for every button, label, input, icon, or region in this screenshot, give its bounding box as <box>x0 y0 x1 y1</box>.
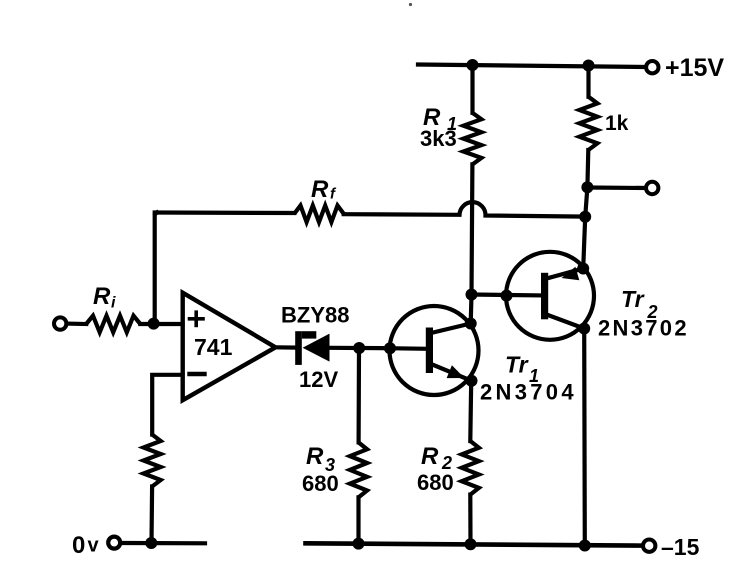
resistor R1 <box>463 113 481 165</box>
svg-text:f: f <box>330 186 337 203</box>
Tr2 base bar <box>541 273 548 320</box>
terminal 0V <box>108 537 120 549</box>
svg-text:R: R <box>93 283 111 310</box>
zener anode triangle <box>303 334 330 362</box>
node top rail R1 junction <box>467 59 479 71</box>
svg-text:12V: 12V <box>299 367 338 392</box>
node +15V rail <box>418 65 646 68</box>
svg-text:R: R <box>421 443 439 470</box>
svg-text:R: R <box>306 443 324 470</box>
wire feedback top left corner <box>155 213 157 325</box>
terminal -15 <box>643 540 655 552</box>
wire Rf left segment <box>155 210 295 215</box>
op-amp U1 741 triangle <box>183 293 276 401</box>
svg-text:–15: –15 <box>661 534 700 560</box>
Tr1 base wire <box>388 346 426 351</box>
node Tr2 collector junction <box>578 323 590 335</box>
wire 1k bottom to output junction <box>585 150 590 187</box>
terminal input <box>54 317 66 329</box>
node zener/R3 junction <box>353 342 365 354</box>
terminal output <box>646 182 658 194</box>
Tr1 base bar <box>426 328 433 374</box>
node Tr2 emitter junction <box>577 263 589 275</box>
node -15 rail <box>306 543 643 545</box>
resistor R2 <box>462 441 479 495</box>
svg-text:Tr: Tr <box>621 286 645 312</box>
wire Tr1 emitter down to R2 <box>468 381 473 441</box>
node top rail 1k junction <box>583 60 595 72</box>
wire junction down to R3 <box>357 348 362 442</box>
node output tap junction <box>581 181 593 193</box>
wire input to Ri <box>67 322 87 327</box>
node Tr2 collector rail junction <box>579 540 591 552</box>
wire Tr2 collector down to -15 rail <box>582 329 587 546</box>
svg-text:741: 741 <box>194 334 233 360</box>
svg-text:2N3702: 2N3702 <box>598 316 689 341</box>
node R2 rail junction <box>465 538 477 550</box>
resistor R4 (minus input to 0V) <box>144 435 161 487</box>
wire R2 to -15 rail <box>468 495 472 545</box>
node R3 rail junction <box>353 538 365 550</box>
resistor 1k <box>579 97 597 150</box>
wire zener to Tr1 base <box>330 346 389 351</box>
wire 0V rail <box>121 541 206 545</box>
wire Ri to op-amp + input <box>140 322 182 326</box>
stray print dot top <box>409 3 412 6</box>
wire vertical output node down to Tr2 emitter <box>583 187 587 268</box>
wire R1 bottom to Tr1 collector <box>471 164 473 323</box>
svg-text:Tr: Tr <box>505 352 529 378</box>
node Tr2 base tap <box>466 289 478 301</box>
svg-text:2N3704: 2N3704 <box>480 380 577 405</box>
node Tr2 base dot on circle <box>501 290 513 302</box>
node Tr1 emitter junction <box>466 375 478 387</box>
svg-text:1k: 1k <box>605 112 629 135</box>
svg-text:680: 680 <box>302 471 339 496</box>
Tr2 emitter arrow (PNP) <box>562 267 580 281</box>
node Tr1 base dot on circle <box>384 342 396 354</box>
zener cathode top tick <box>302 331 317 338</box>
Tr1 collector lead <box>431 324 471 334</box>
node Tr1 collector junction <box>465 318 477 330</box>
wire 1k branch vertical <box>586 66 590 97</box>
node 0V junction <box>145 537 157 549</box>
wire Rf right segment with hop over collector line <box>344 202 586 216</box>
wire op-amp minus input to ground resistor <box>152 375 182 435</box>
wire R1 branch vertical (collector line) <box>470 65 474 113</box>
svg-text:0: 0 <box>72 532 85 559</box>
wire output tap <box>587 185 645 190</box>
op-amp plus input symbol <box>190 317 204 321</box>
svg-text:v: v <box>88 535 100 557</box>
svg-text:+15V: +15V <box>665 54 724 82</box>
Tr1 emitter arrow (NPN) <box>447 365 465 378</box>
resistor Rf <box>294 206 343 223</box>
zener diode D1 cathode bar <box>295 331 302 365</box>
svg-text:i: i <box>111 295 116 312</box>
terminal +15V <box>646 61 658 73</box>
node feedback junction <box>148 318 160 330</box>
wire resistor to 0V rail <box>149 487 154 544</box>
transistor Q1 Tr1 circle <box>390 306 479 395</box>
svg-text:680: 680 <box>417 470 454 495</box>
Tr2 emitter lead <box>547 269 584 279</box>
wire R3 to -15 rail <box>356 497 360 543</box>
transistor Q2 Tr2 circle <box>506 252 594 340</box>
wire Tr2 base from collector line <box>472 292 542 297</box>
op-amp minus input symbol <box>190 372 205 376</box>
Tr1 emitter lead <box>431 364 472 381</box>
svg-text:R: R <box>311 176 329 203</box>
node Rf right junction <box>579 211 591 223</box>
resistor Ri <box>86 316 140 333</box>
resistor R3 <box>350 442 367 497</box>
Tr2 collector lead <box>547 315 585 329</box>
svg-text:3k3: 3k3 <box>420 126 457 151</box>
wire op-amp output to zener <box>276 345 296 350</box>
svg-text:BZY88: BZY88 <box>281 303 349 328</box>
